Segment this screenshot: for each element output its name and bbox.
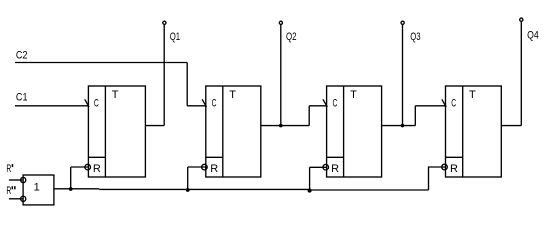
svg-text:Q1: Q1 [170,31,180,43]
U2 R inversion bubble [202,164,208,170]
wire: rail corner up to U4 R [429,167,446,190]
wire: U1 Q output [145,125,164,127]
svg-text:R: R [331,163,339,175]
wire: into U2 R [188,166,206,168]
U4 R inversion bubble [442,164,448,170]
U3 body [327,86,382,177]
svg-text:R: R [6,185,11,197]
terminal Q4 [520,18,523,21]
U4 input-column divider [462,86,464,177]
wire: R'' input [9,198,23,200]
junction: Q2 tap [279,124,283,128]
U2 input-column divider [222,86,224,177]
reset gate U5 [21,175,54,205]
U4 R cell divider [446,156,463,158]
wire: into U3 C input [309,105,326,107]
U1 R inversion bubble [85,164,91,170]
junction: U1 reset tap [69,187,73,191]
U5 body [23,175,54,205]
svg-text:T: T [469,89,476,101]
wire: C2 vertical drop to U2 clock [186,63,188,106]
wire: U2 Q output [261,125,309,127]
wire: Q1 riser [163,24,165,125]
wire: into U4 C input [415,105,445,107]
U3 input-column divider [343,86,345,177]
svg-text:C: C [94,98,99,110]
wire: C2 into U2 C input [187,105,206,107]
U4 clock edge mark [442,99,446,107]
svg-text:1: 1 [34,182,40,194]
wire: U3 Q output [382,125,416,127]
svg-text:R: R [6,163,11,175]
U1 input-column divider [104,86,106,177]
wire: U2 reset riser [187,167,189,189]
U2 clock edge mark [202,99,206,107]
wire: reset rail segment 2 [99,188,310,190]
U5 input bubble R' [21,177,26,182]
U4 body [446,86,502,177]
U3 R inversion bubble [323,164,329,170]
wire: into U3 R [310,166,327,168]
wire: Q2 riser [280,24,282,125]
svg-text:Q4: Q4 [527,29,539,41]
svg-text:C: C [333,98,338,110]
T flip-flop U3 [323,86,382,177]
svg-text:R: R [210,163,218,175]
svg-text:C: C [451,98,456,110]
U5 input bubble R'' [21,196,26,201]
svg-text:C2: C2 [16,50,28,62]
wire: clock riser to U3 [308,106,310,126]
svg-text:C1: C1 [16,92,28,104]
U3 R cell divider [327,156,344,158]
wire: C2 horizontal run [15,62,187,64]
svg-text:Q2: Q2 [286,31,297,43]
svg-text:T: T [229,89,236,101]
wire: reset rail segment 1 [54,188,99,190]
U1 R cell divider [88,156,105,158]
U2 R cell divider [206,156,223,158]
terminal Q1 [163,21,166,24]
svg-text:C: C [212,98,217,110]
junction: U3 reset tap [308,189,312,193]
svg-text:Q3: Q3 [410,31,420,43]
wire: C1 to U1 clock [15,105,88,107]
junction: U2 reset tap [186,188,190,192]
U2 body [206,86,261,177]
wire: U3 reset riser [309,167,311,190]
svg-text:T: T [112,89,119,101]
junction: Q3 tap [401,124,405,128]
svg-text:T: T [350,89,357,101]
wire: U4 Q output [501,125,521,127]
svg-text:R: R [93,163,101,175]
wire: R' input [9,179,23,181]
svg-text:R: R [450,163,458,175]
wire: reset rail segment 3 [310,189,428,191]
wire: into U1 R [71,166,89,168]
terminal Q3 [401,21,404,24]
wire: Q4 riser [520,21,522,125]
terminal Q2 [279,21,282,24]
wire: clock riser to U4 [414,106,416,126]
T flip-flop U1 [85,86,146,177]
U1 clock edge mark [85,99,89,107]
wire: Q3 riser [402,24,404,125]
T flip-flop U4 [442,86,502,177]
U3 clock edge mark [323,99,327,107]
T flip-flop U2 [202,86,261,177]
U1 body [88,86,145,177]
wire: U1 reset riser [70,167,72,189]
